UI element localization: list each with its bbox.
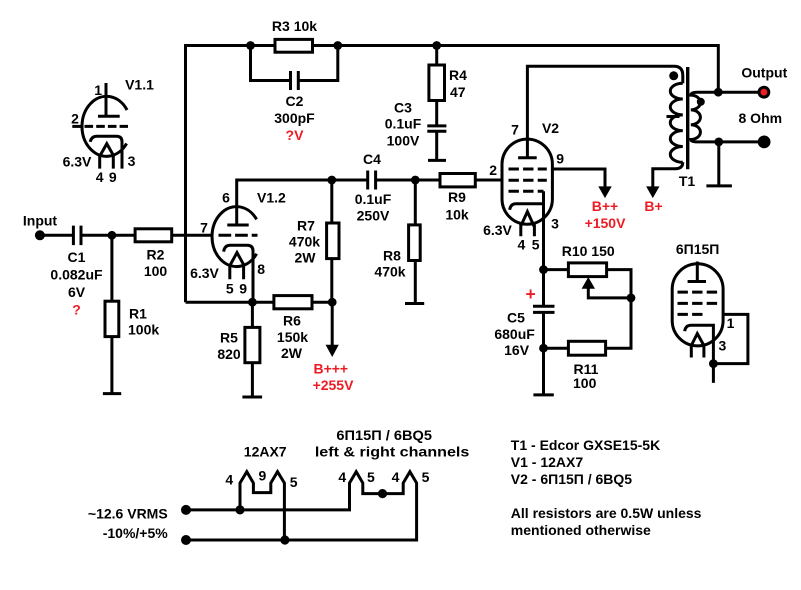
svg-text:V2 - 6П15П / 6BQ5: V2 - 6П15П / 6BQ5	[511, 471, 633, 487]
svg-text:10k: 10k	[445, 207, 469, 223]
svg-text:Output: Output	[741, 64, 787, 80]
svg-text:100k: 100k	[128, 322, 159, 338]
svg-text:2: 2	[71, 111, 79, 127]
svg-text:12AX7: 12AX7	[244, 444, 287, 460]
svg-text:R1: R1	[129, 305, 147, 321]
svg-text:All resistors are 0.5W unless: All resistors are 0.5W unless	[511, 505, 702, 521]
svg-text:4: 4	[96, 169, 104, 185]
svg-text:6.3V: 6.3V	[63, 154, 92, 170]
svg-text:16V: 16V	[504, 342, 530, 358]
svg-text:V1.2: V1.2	[257, 190, 286, 206]
svg-text:100: 100	[144, 263, 168, 279]
svg-text:680uF: 680uF	[494, 326, 535, 342]
svg-text:6.3V: 6.3V	[190, 265, 219, 281]
svg-text:left & right channels: left & right channels	[315, 443, 470, 459]
svg-text:9: 9	[109, 169, 117, 185]
svg-text:?: ?	[72, 301, 81, 317]
svg-text:9: 9	[239, 281, 247, 297]
svg-text:B++: B++	[592, 198, 618, 214]
svg-text:T1 - Edcor GXSE15-5K: T1 - Edcor GXSE15-5K	[511, 437, 660, 453]
svg-text:C5: C5	[507, 309, 525, 325]
svg-text:mentioned otherwise: mentioned otherwise	[511, 522, 651, 538]
svg-text:3: 3	[719, 338, 727, 354]
svg-text:4: 4	[518, 237, 526, 253]
svg-text:R10 150: R10 150	[562, 243, 615, 259]
svg-text:6V: 6V	[68, 284, 86, 300]
svg-text:C1: C1	[68, 249, 86, 265]
svg-text:100V: 100V	[387, 133, 420, 149]
svg-text:C4: C4	[363, 151, 381, 167]
svg-text:?V: ?V	[286, 127, 305, 143]
svg-text:R2: R2	[147, 247, 165, 263]
svg-text:8 Ohm: 8 Ohm	[739, 110, 783, 126]
svg-text:2W: 2W	[281, 345, 303, 361]
svg-text:9: 9	[259, 467, 267, 483]
svg-text:250V: 250V	[357, 208, 390, 224]
svg-text:V1 - 12AX7: V1 - 12AX7	[511, 454, 584, 470]
svg-text:R8: R8	[383, 248, 401, 264]
svg-text:5: 5	[290, 474, 298, 490]
svg-text:4: 4	[392, 469, 400, 485]
svg-text:+: +	[525, 284, 535, 304]
svg-text:6: 6	[222, 190, 230, 206]
svg-text:5: 5	[226, 281, 234, 297]
svg-text:3: 3	[551, 216, 559, 232]
svg-text:8: 8	[257, 261, 265, 277]
svg-text:5: 5	[422, 469, 430, 485]
svg-text:C3: C3	[394, 100, 412, 116]
svg-text:6П15П / 6BQ5: 6П15П / 6BQ5	[336, 427, 432, 443]
svg-text:3: 3	[128, 153, 136, 169]
svg-text:R5: R5	[220, 330, 238, 346]
svg-text:B+: B+	[644, 198, 662, 214]
svg-text:6.3V: 6.3V	[483, 222, 512, 238]
svg-text:1: 1	[727, 315, 735, 331]
svg-text:Input: Input	[23, 213, 58, 229]
svg-text:2: 2	[489, 162, 497, 178]
svg-text:V2: V2	[542, 120, 559, 136]
svg-text:470k: 470k	[289, 234, 320, 250]
svg-text:9: 9	[556, 151, 564, 167]
svg-text:5: 5	[367, 469, 375, 485]
svg-text:0.1uF: 0.1uF	[385, 116, 422, 132]
svg-text:2W: 2W	[295, 249, 317, 265]
svg-text:470k: 470k	[374, 264, 405, 280]
svg-text:150k: 150k	[277, 329, 308, 345]
svg-text:4: 4	[338, 469, 346, 485]
svg-text:~12.6 VRMS: ~12.6 VRMS	[88, 506, 168, 522]
svg-text:820: 820	[217, 346, 241, 362]
svg-text:R7: R7	[297, 218, 315, 234]
svg-text:0.1uF: 0.1uF	[355, 191, 392, 207]
svg-text:+150V: +150V	[585, 215, 627, 231]
svg-text:6П15П: 6П15П	[676, 241, 719, 257]
svg-text:47: 47	[450, 84, 466, 100]
svg-text:-10%/+5%: -10%/+5%	[103, 525, 169, 541]
svg-text:300pF: 300pF	[274, 110, 315, 126]
svg-text:R3 10k: R3 10k	[272, 18, 317, 34]
svg-text:100: 100	[573, 375, 597, 391]
svg-text:5: 5	[532, 237, 540, 253]
svg-text:+255V: +255V	[313, 377, 355, 393]
svg-text:T1: T1	[679, 173, 696, 189]
svg-text:4: 4	[225, 472, 233, 488]
svg-text:7: 7	[200, 220, 208, 236]
svg-text:1: 1	[94, 82, 102, 98]
svg-text:B+++: B+++	[313, 361, 348, 377]
svg-text:C2: C2	[286, 93, 304, 109]
svg-text:R4: R4	[449, 67, 467, 83]
svg-text:R9: R9	[448, 189, 466, 205]
svg-text:0.082uF: 0.082uF	[50, 267, 103, 283]
svg-text:V1.1: V1.1	[125, 77, 154, 93]
svg-text:7: 7	[511, 122, 519, 138]
svg-text:R6: R6	[283, 312, 301, 328]
